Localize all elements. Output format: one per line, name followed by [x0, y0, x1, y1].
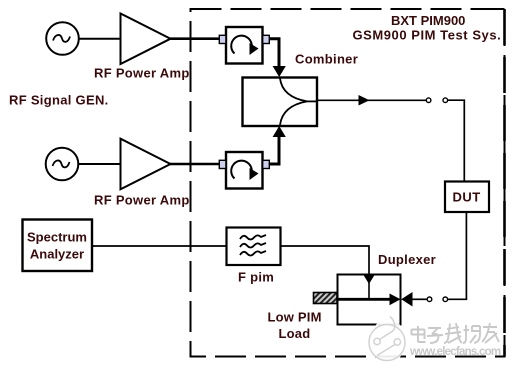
- connector node (open circle, right) duplexer out: [443, 297, 448, 302]
- svg-text:BXT PIM900: BXT PIM900: [391, 13, 465, 28]
- arrowhead on output wire: [359, 95, 370, 106]
- svg-text:www.elecfans.com: www.elecfans.com: [409, 346, 501, 358]
- wire duplexer to connector: [412, 298, 427, 300]
- svg-text:Low PIM: Low PIM: [268, 310, 322, 325]
- connector node (open circle, left) duplexer out: [427, 297, 432, 302]
- circulator U2: [219, 152, 269, 189]
- arrowhead into combiner top: [273, 66, 286, 77]
- DUT box: [445, 182, 489, 213]
- svg-text:RF Power Amp: RF Power Amp: [94, 193, 190, 208]
- wire combiner output: [317, 99, 426, 101]
- arrowhead right at duplexer port (inside): [390, 294, 401, 306]
- wire to DUT top (corner): [448, 100, 465, 181]
- wire DUT bottom to duplexer port (corner): [448, 212, 466, 299]
- svg-text:Spectrum: Spectrum: [27, 230, 87, 245]
- wire A1 to circulator U1: [170, 37, 220, 40]
- arrowhead into combiner bottom: [273, 126, 286, 137]
- Spectrum Analyzer box: [23, 220, 93, 272]
- connector node (open circle, left) on output: [426, 98, 431, 103]
- wire U2 up to combiner (corner): [270, 136, 280, 164]
- svg-text:Duplexer: Duplexer: [378, 252, 436, 267]
- watermark text 电子发烧友: [412, 323, 500, 343]
- dashed system boundary box: [191, 9, 505, 357]
- dashed boundary right edge (thicker): [503, 9, 506, 357]
- wire Spectrum Analyzer to F pim filter: [92, 245, 226, 247]
- RF power amp A1: [121, 14, 171, 65]
- wire U1 to combiner (corner): [270, 39, 280, 67]
- svg-text:RF Power Amp: RF Power Amp: [94, 66, 190, 81]
- duplexer box: [338, 275, 401, 325]
- wire F pim to duplexer (corner): [281, 246, 369, 275]
- svg-text:F pim: F pim: [238, 270, 274, 285]
- filter F pim: [227, 228, 281, 266]
- arrowhead into duplexer top: [364, 276, 374, 285]
- watermark white halo: [371, 318, 405, 364]
- arrowhead left at duplexer port (outside): [401, 292, 412, 307]
- combiner U3: [243, 78, 318, 127]
- low PIM load (hatched termination): [314, 293, 338, 304]
- wire A2 to circulator U2: [170, 163, 220, 166]
- svg-text:DUT: DUT: [453, 190, 481, 205]
- RF power amp A2: [121, 139, 171, 190]
- boundary top-right corner dash: [492, 8, 505, 10]
- connector node (open circle, right) on output: [443, 98, 448, 103]
- circulator U1: [219, 27, 269, 64]
- svg-text:Load: Load: [279, 326, 311, 341]
- svg-text:GSM900 PIM Test Sys.: GSM900 PIM Test Sys.: [353, 28, 502, 43]
- wire inside duplexer (vertical): [368, 282, 370, 299]
- watermark logo circle: [369, 317, 405, 361]
- svg-text:RF Signal GEN.: RF Signal GEN.: [9, 93, 109, 108]
- wire G2 to amp A2: [79, 163, 121, 165]
- wire G1 to amp A1: [79, 38, 120, 40]
- signal generator G1: [46, 22, 79, 55]
- svg-text:Analyzer: Analyzer: [30, 247, 84, 262]
- wire load through duplexer: [337, 298, 392, 301]
- svg-text:Combiner: Combiner: [295, 52, 358, 67]
- signal generator G2: [46, 148, 79, 181]
